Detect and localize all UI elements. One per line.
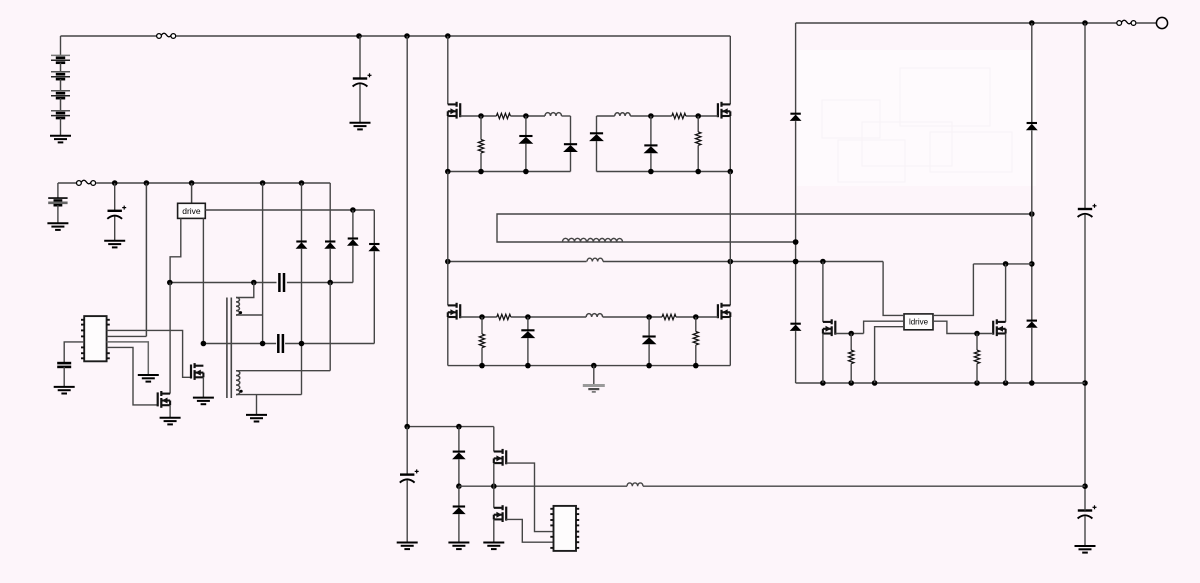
svg-text:ldrive: ldrive: [909, 318, 929, 327]
svg-text:drive: drive: [182, 206, 201, 216]
